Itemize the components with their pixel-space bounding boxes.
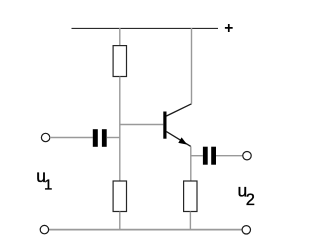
label: u2 (output voltage) — [238, 181, 255, 210]
wire: C1 to base node vertical — [107, 137, 120, 139]
terminal: output terminal (right circle) — [243, 152, 251, 160]
terminal: input terminal (top left circle) — [41, 133, 49, 141]
terminal: bottom right terminal — [242, 226, 250, 234]
wire: bottom return rail — [49, 229, 242, 231]
wire: R1 bottom down through base node to R2 top — [119, 77, 121, 182]
wire: R3 bottom to ground rail — [189, 212, 191, 230]
terminal: bottom left terminal — [40, 225, 48, 233]
svg-text:2: 2 — [246, 191, 255, 209]
svg-text:1: 1 — [44, 176, 52, 193]
wire: positive supply rail (top) — [72, 27, 219, 29]
transistor Q1 collector lead (diagonal) — [166, 104, 191, 116]
wire: input terminal to C1 — [50, 137, 93, 139]
transistor Q1 emitter arrowhead — [178, 137, 187, 144]
wire: emitter node to C2 — [191, 155, 203, 157]
capacitor C2 (output coupling capacitor) — [203, 147, 216, 165]
wire: R2 bottom to ground rail — [119, 212, 121, 230]
label: u1 (input voltage) — [36, 166, 52, 193]
capacitor C1 (input coupling capacitor) — [93, 129, 107, 147]
wire: emitter vertical down to R3 — [190, 146, 192, 181]
resistor R1 (bias resistor, upper left branch) — [113, 46, 126, 77]
wire: rail to R1 top — [119, 28, 121, 46]
transistor Q1 base bar — [163, 112, 166, 139]
wire: collector vertical to supply rail — [191, 28, 193, 104]
wire: base wire from node to transistor base bar — [120, 124, 164, 126]
resistor R2 (lower bias resistor, left branch) — [113, 181, 126, 212]
svg-text:+: + — [224, 20, 233, 37]
transistor Q1 emitter lead (diagonal) — [166, 132, 190, 147]
resistor R3 (emitter resistor, right branch) — [184, 181, 197, 212]
wire: C2 to output terminal — [216, 155, 243, 157]
